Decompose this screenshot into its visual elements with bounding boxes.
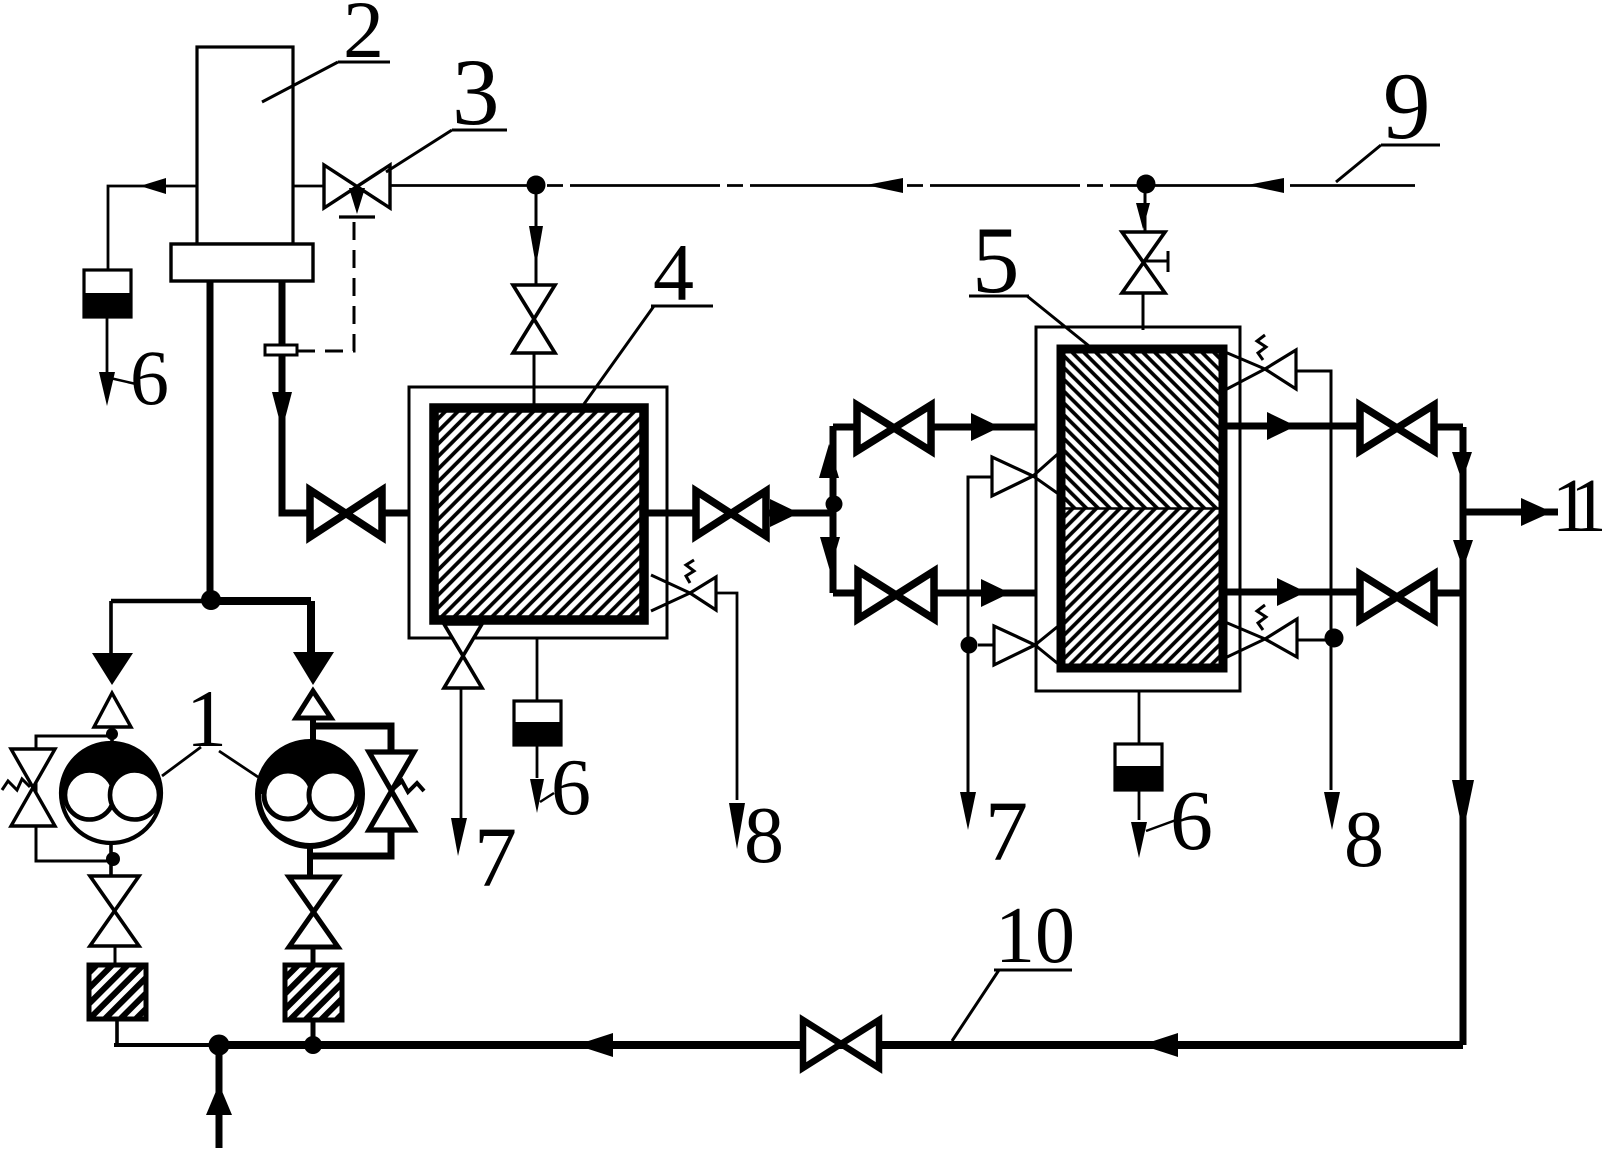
label 5 — [969, 207, 1094, 350]
svg-text:6: 6 — [551, 744, 591, 832]
exchanger 4 outer shell — [409, 387, 667, 638]
node where safety valves join drop line — [1325, 629, 1344, 648]
pipe: bottom return header — [114, 1033, 1463, 1057]
check valve left pump — [92, 653, 133, 727]
wire: header node down to valve above box 4 — [529, 185, 543, 285]
valve 10 on bottom header — [803, 1020, 879, 1068]
svg-text:1: 1 — [186, 673, 227, 764]
instrument 6 below box 4 — [514, 701, 561, 745]
valve above exchanger 5 with side stem — [1122, 232, 1168, 293]
wire: dashed impulse line from valve 3 to orifice — [298, 222, 354, 351]
label 2 — [262, 0, 390, 102]
safety valve exchanger 5 lower right — [1225, 605, 1326, 658]
orifice plate on pipe — [265, 345, 297, 355]
label 6 below exchanger 5 — [1146, 772, 1213, 868]
wire: strainer to bottom header — [115, 1019, 119, 1045]
strainer (hatched) right — [285, 965, 342, 1020]
pipe: valve to box 4 left side — [382, 510, 432, 517]
vent valve below box 4 — [444, 624, 482, 688]
exchanger 5 lower hatched core — [1061, 509, 1223, 669]
pipe: riser between upper and lower passes — [819, 426, 840, 593]
safety valve at box 4 lower right — [651, 560, 716, 611]
pipe: upper pass left with valve — [833, 405, 1059, 451]
svg-text:8: 8 — [744, 792, 784, 880]
valve 3 (control valve) — [324, 165, 390, 217]
wire: top header line left of vessel 2 — [108, 178, 196, 270]
wire: instrument drain arrow — [1131, 790, 1147, 858]
wire: junction header to both pumps — [111, 599, 211, 604]
wire: top header line (dash-dot) valve 3 to right end — [390, 178, 1415, 193]
svg-text:4: 4 — [653, 227, 694, 318]
wire: vessel 2 to valve 3 — [293, 185, 324, 188]
wire: valve to strainer — [114, 946, 117, 966]
instrument 6 below exchanger 5 — [1115, 744, 1162, 790]
instrument 6 (left drain pot) — [84, 270, 131, 317]
wire: feed inlet with up arrow — [206, 1045, 232, 1148]
exchanger 5 core border — [1061, 349, 1223, 668]
node: right strainer tee — [304, 1036, 322, 1054]
relief valve on left bypass — [2, 749, 55, 826]
wire: instrument drain arrow — [530, 745, 544, 813]
pipe: right return riser down to bottom header — [1452, 427, 1474, 1045]
wire: drop line arrow (8) — [1324, 792, 1340, 830]
wire: instrument 6 drain with arrow — [99, 317, 115, 406]
valve below left pump — [90, 876, 139, 946]
wire: header node down to valve above exchanger 5 — [1136, 184, 1150, 232]
node: pump suction junction — [201, 590, 221, 610]
wire: box 4 bottom to instrument 6 — [536, 638, 539, 701]
node: inlet tee on bottom header — [209, 1035, 230, 1056]
node above left pump — [106, 728, 118, 740]
wire: safety valve to drain arrow (8) — [716, 593, 745, 849]
wire: left pump drop leg — [109, 601, 113, 654]
pipe: lower pass left with valve — [833, 571, 1059, 619]
svg-text:9: 9 — [1383, 53, 1431, 159]
svg-text:2: 2 — [343, 0, 384, 75]
wire: right pump stubs — [310, 716, 313, 877]
valve above box 4 — [513, 285, 555, 353]
label 4 — [584, 227, 713, 404]
check valve right pump — [293, 652, 334, 718]
svg-text:7: 7 — [474, 809, 517, 905]
safety valve exchanger 5 upper right — [1225, 335, 1296, 390]
wire: strainer to bottom header right — [311, 1020, 316, 1045]
angle valve exchanger 5 lower left — [978, 623, 1062, 667]
pump 1 right — [258, 742, 362, 846]
svg-text:7: 7 — [985, 783, 1028, 879]
label 3 — [386, 39, 507, 172]
exchanger 5 outer shell — [1036, 327, 1240, 691]
wire: exchanger 5 bottom to instrument 6 — [1138, 691, 1141, 744]
vessel 2 base flange — [171, 244, 313, 281]
wire: valve to exchanger 5 top — [1142, 293, 1145, 330]
svg-text:8: 8 — [1344, 796, 1384, 884]
wire: left pump top/bottom stubs — [111, 727, 112, 876]
strainer (hatched) left — [89, 965, 146, 1019]
exchanger 5 upper hatched core — [1061, 349, 1223, 509]
wire: right pump bypass loop — [313, 726, 391, 856]
node below left pump — [106, 852, 120, 866]
exchanger 4 hatched core — [434, 408, 644, 620]
svg-text:6: 6 — [130, 334, 169, 421]
pipe: box 4 outlet right with valve — [644, 491, 833, 536]
node on header above exchanger 5 — [1137, 175, 1156, 194]
wire: valve to box 4 top — [533, 353, 536, 404]
wire: left pump bypass loop — [36, 736, 112, 861]
valve (box 4 inlet gate valve) — [310, 490, 382, 537]
label 6 below box 4 — [540, 744, 591, 832]
pump 1 left — [61, 743, 161, 843]
wire: vent line down with arrow (7) — [451, 688, 467, 856]
relief valve on right bypass — [369, 752, 424, 830]
wire: valve to strainer right — [311, 947, 316, 966]
wire: safety valve outlet to drop line — [1296, 371, 1331, 790]
label 9 — [1336, 53, 1440, 182]
valve below right pump — [289, 877, 338, 947]
svg-text:6: 6 — [1170, 772, 1213, 868]
pipe: upper pass right with valve — [1225, 405, 1463, 451]
vessel 2 body — [197, 47, 293, 244]
svg-text:10: 10 — [995, 892, 1075, 980]
angle valve exchanger 5 upper left — [992, 452, 1060, 496]
label 10 — [952, 892, 1075, 1041]
pipe: vessel base left downcomer to pump junction — [207, 281, 214, 601]
wire: right pump drop leg — [307, 601, 315, 653]
node: tee feeding exchanger 5 loops — [826, 496, 843, 513]
pipe: vessel base right line to box 4 — [272, 281, 310, 513]
pipe: lower pass right with valve — [1225, 574, 1463, 620]
wire: upper left angle valve to drain line (7) — [960, 477, 992, 830]
pipe: product outlet to 11 — [1463, 498, 1558, 526]
label 1 with leaders — [162, 673, 258, 777]
label 6 left — [110, 334, 169, 421]
node on drain line — [961, 637, 978, 654]
node on header above box 4 — [527, 176, 546, 195]
